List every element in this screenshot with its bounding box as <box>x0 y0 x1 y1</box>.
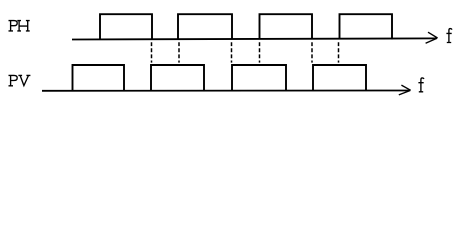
PH axis <box>72 38 437 39</box>
dashed line 2 (PH pulse2 rise) <box>178 42 180 62</box>
PV axis <box>42 90 410 92</box>
PH pulse 2 <box>178 14 232 39</box>
PV axis arrowhead <box>399 85 411 95</box>
PV pulse 4 <box>313 65 366 91</box>
PH pulse 3 <box>260 14 313 39</box>
label PH <box>9 21 30 31</box>
PV pulse 1 <box>73 65 125 91</box>
PH pulse 4 <box>340 14 393 39</box>
PH axis arrowhead <box>426 32 438 43</box>
label f (PV axis) <box>418 78 424 92</box>
dashed line 1 (PH pulse1 fall) <box>151 42 153 62</box>
dashed line 6 (PH pulse4 rise) <box>338 42 340 62</box>
dashed line 3 (PH pulse2 fall) <box>231 42 233 62</box>
PV pulse 3 <box>232 65 286 91</box>
label PV <box>9 75 31 85</box>
dashed line 4 (PH pulse3 rise) <box>259 42 261 62</box>
label f (PH axis) <box>446 29 452 43</box>
PH pulse 1 <box>100 14 152 39</box>
dashed line 5 (PH pulse3 fall) <box>311 42 313 62</box>
PV pulse 2 <box>151 65 204 91</box>
